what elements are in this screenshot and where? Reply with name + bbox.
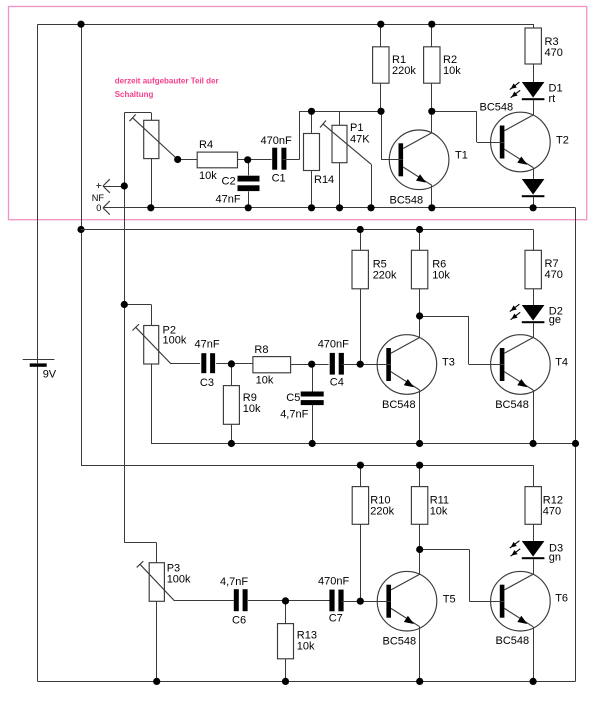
svg-text:10k: 10k — [443, 65, 461, 77]
svg-text:derzeit aufgebauter Teil der: derzeit aufgebauter Teil der — [115, 77, 219, 86]
svg-text:rt: rt — [549, 93, 556, 105]
svg-text:9V: 9V — [43, 368, 57, 380]
svg-text:4,7nF: 4,7nF — [220, 576, 248, 588]
svg-text:470nF: 470nF — [318, 576, 349, 588]
svg-text:100k: 100k — [163, 335, 187, 347]
svg-text:470: 470 — [543, 506, 561, 518]
svg-text:220k: 220k — [373, 270, 397, 282]
svg-text:C2: C2 — [222, 176, 236, 188]
svg-text:Schaltung: Schaltung — [115, 90, 154, 99]
svg-text:T6: T6 — [555, 593, 568, 605]
svg-text:0: 0 — [96, 203, 101, 213]
svg-text:T5: T5 — [443, 594, 456, 606]
svg-text:C1: C1 — [272, 173, 286, 185]
svg-text:10k: 10k — [297, 641, 315, 653]
svg-text:470nF: 470nF — [261, 135, 292, 147]
svg-text:470: 470 — [545, 269, 563, 281]
svg-text:C3: C3 — [200, 377, 214, 389]
svg-text:10k: 10k — [430, 506, 448, 518]
svg-text:220k: 220k — [370, 506, 394, 518]
svg-text:C5: C5 — [286, 392, 300, 404]
svg-text:100k: 100k — [167, 574, 191, 586]
svg-text:10k: 10k — [432, 270, 450, 282]
svg-text:BC548: BC548 — [495, 399, 529, 411]
svg-text:47nF: 47nF — [216, 194, 241, 206]
svg-text:4,7nF: 4,7nF — [280, 409, 308, 421]
svg-text:10k: 10k — [199, 170, 217, 182]
svg-text:470nF: 470nF — [318, 339, 349, 351]
svg-text:C6: C6 — [232, 615, 246, 627]
svg-text:BC548: BC548 — [390, 195, 424, 207]
svg-text:T3: T3 — [442, 357, 455, 369]
svg-text:C4: C4 — [330, 377, 344, 389]
svg-text:470: 470 — [545, 47, 563, 59]
svg-text:BC548: BC548 — [480, 102, 514, 114]
svg-text:P1: P1 — [350, 122, 363, 134]
svg-text:C7: C7 — [329, 613, 343, 625]
svg-text:T4: T4 — [555, 357, 568, 369]
svg-text:R4: R4 — [199, 139, 213, 151]
svg-text:NF: NF — [92, 193, 105, 203]
svg-text:BC548: BC548 — [496, 635, 530, 647]
svg-text:gn: gn — [549, 552, 561, 564]
svg-text:10k: 10k — [243, 403, 261, 415]
svg-text:47nF: 47nF — [195, 339, 220, 351]
svg-text:BC548: BC548 — [383, 636, 417, 648]
svg-text:BC548: BC548 — [382, 399, 416, 411]
svg-text:T2: T2 — [556, 135, 569, 147]
svg-text:T1: T1 — [455, 150, 468, 162]
svg-text:R14: R14 — [314, 174, 334, 186]
svg-text:220k: 220k — [392, 65, 416, 77]
svg-text:R8: R8 — [254, 344, 268, 356]
svg-text:47K: 47K — [350, 134, 370, 146]
svg-text:ge: ge — [549, 314, 561, 326]
svg-text:10k: 10k — [256, 375, 274, 387]
